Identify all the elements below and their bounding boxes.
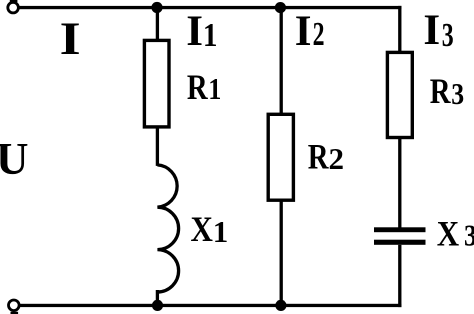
svg-text:R: R (430, 71, 452, 111)
svg-text:U: U (0, 134, 29, 184)
svg-text:1: 1 (203, 17, 218, 54)
svg-text:I: I (423, 7, 440, 54)
label X3 (437, 213, 474, 253)
terminal bottom-left (9, 300, 20, 314)
svg-text:3: 3 (464, 218, 474, 253)
wire branch1 bottom (156, 290, 159, 305)
wire branch3 mid (398, 138, 401, 229)
svg-text:2: 2 (329, 141, 345, 176)
wire top bus (20, 6, 402, 9)
svg-text:1: 1 (208, 71, 221, 106)
node junction bottom branch1 (152, 300, 163, 311)
label R2 (308, 136, 344, 176)
resistor R3 (387, 52, 412, 137)
terminal top-left (8, 0, 19, 13)
capacitor X3 (374, 227, 426, 245)
svg-text:1: 1 (213, 214, 229, 249)
node junction top branch2 (275, 2, 286, 13)
inductor X1 (157, 165, 178, 292)
wire branch2 top (280, 8, 283, 115)
svg-text:I: I (60, 13, 81, 65)
label X1 (191, 209, 229, 249)
svg-text:R: R (308, 136, 330, 176)
svg-text:2: 2 (313, 16, 325, 53)
label R3 (430, 71, 464, 111)
resistor R2 (268, 114, 293, 200)
label I1 (186, 8, 217, 55)
svg-text:3: 3 (442, 17, 454, 54)
wire branch1 mid (156, 127, 159, 166)
label I2 (295, 8, 325, 55)
svg-text:I: I (295, 8, 312, 55)
wire branch3 bottom (398, 245, 401, 307)
svg-text:I: I (186, 8, 203, 55)
resistor R1 (144, 40, 169, 127)
svg-text:3: 3 (451, 76, 464, 111)
node junction top branch1 (151, 2, 162, 13)
svg-text:R: R (187, 67, 209, 107)
wire branch2 bottom (280, 200, 283, 305)
node junction bottom branch2 (275, 300, 286, 311)
wire right branch vertical top (398, 6, 401, 53)
wire bottom bus (20, 304, 402, 307)
label R1 (187, 67, 222, 107)
label I3 (423, 7, 453, 54)
svg-text:X: X (191, 209, 213, 249)
svg-text:X: X (437, 213, 459, 253)
wire branch1 top (156, 8, 159, 41)
